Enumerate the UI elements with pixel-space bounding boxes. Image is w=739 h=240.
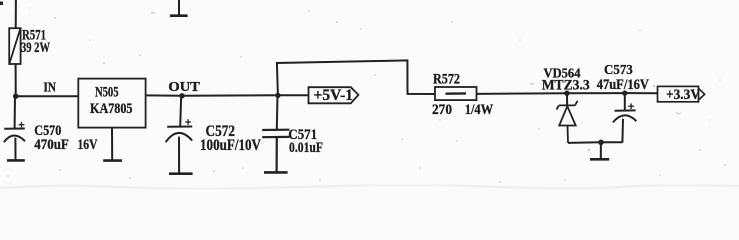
plus sign C572: [185, 119, 191, 125]
svg-text:R572: R572: [433, 72, 460, 88]
net flag +5V-1: [309, 87, 359, 103]
wire into R571 from top: [15, 0, 17, 29]
wire ground stub: [600, 142, 602, 158]
scan noise speckles (decorative): [7, 7, 726, 183]
ground (top, cropped symbol): [178, 0, 180, 15]
node at C571 tap: [275, 93, 280, 98]
svg-text:KA7805: KA7805: [90, 101, 133, 117]
ground (C570): [7, 159, 25, 162]
capacitor C573: [613, 110, 637, 142]
wire regulator GND pin: [111, 128, 113, 160]
node IN junction: [13, 94, 18, 99]
plus sign C573: [628, 103, 634, 109]
zener diode VD564 cathode lead: [566, 93, 568, 105]
svg-text:MTZ3.3: MTZ3.3: [542, 78, 590, 94]
capacitor C572 lead: [180, 96, 181, 126]
ground (C572): [169, 172, 193, 175]
wire IN node to regulator: [16, 95, 79, 97]
wire R572 to +3.3V flag: [477, 92, 658, 95]
label VD564 MTZ3.3: [542, 65, 590, 93]
faint bottom scan band (decorative): [0, 185, 739, 189]
capacitor C570 lead from node: [14, 96, 16, 128]
wire OUT rail: [146, 94, 309, 97]
zener diode VD564: [557, 101, 578, 143]
capacitor C571: [262, 130, 289, 172]
node at VD564 tap: [564, 91, 569, 96]
ground (regulator): [103, 159, 122, 162]
svg-text:IN: IN: [44, 80, 57, 95]
svg-text:+3.3V: +3.3V: [666, 87, 700, 103]
resistor R571 (fusible, box with diagonal): [9, 28, 20, 64]
svg-text:C573: C573: [604, 63, 633, 78]
regulator U1 N505 KA7805: [78, 79, 145, 128]
label C572 100uF/10V: [200, 123, 261, 154]
label R572 270 1/4W: [432, 72, 493, 118]
capacitor C570: [4, 129, 25, 160]
svg-text:1/4W: 1/4W: [465, 102, 494, 118]
ground (C571): [264, 171, 288, 174]
svg-text:100uF/10V: 100uF/10V: [200, 137, 261, 154]
net flag +3.3V: [658, 86, 705, 101]
capacitor C571 lead: [276, 95, 279, 129]
svg-text:N505: N505: [95, 84, 119, 100]
node at C572 tap: [179, 93, 184, 98]
label C570 470uF 16V: [34, 123, 97, 153]
top-left scan blob (decorative): [0, 2, 3, 6]
label C571 0.01uF: [288, 127, 323, 156]
svg-text:0.01uF: 0.01uF: [289, 140, 323, 156]
plus sign C570: [19, 122, 25, 128]
label R571 value 39 2W: [21, 27, 50, 56]
capacitor C573 lead: [624, 93, 626, 110]
capacitor C572: [166, 127, 193, 174]
svg-text:OUT: OUT: [168, 79, 200, 94]
wire R571 to IN node: [15, 64, 17, 96]
svg-text:270: 270: [432, 102, 452, 118]
resistor R572: [435, 87, 477, 100]
node bottom junction: [598, 140, 604, 146]
svg-text:39 2W: 39 2W: [21, 40, 50, 56]
label C573 47uF/16V: [597, 63, 650, 93]
node at C573 tap: [622, 90, 627, 95]
svg-text:47uF/16V: 47uF/16V: [597, 77, 650, 93]
svg-text:+5V-1: +5V-1: [314, 87, 354, 104]
wire overhead bypass: [277, 60, 435, 95]
ground (zener/C573): [590, 158, 609, 161]
svg-text:16V: 16V: [78, 137, 98, 153]
wire bottom rail zener/C573: [568, 141, 623, 144]
svg-text:470uF: 470uF: [34, 137, 69, 153]
